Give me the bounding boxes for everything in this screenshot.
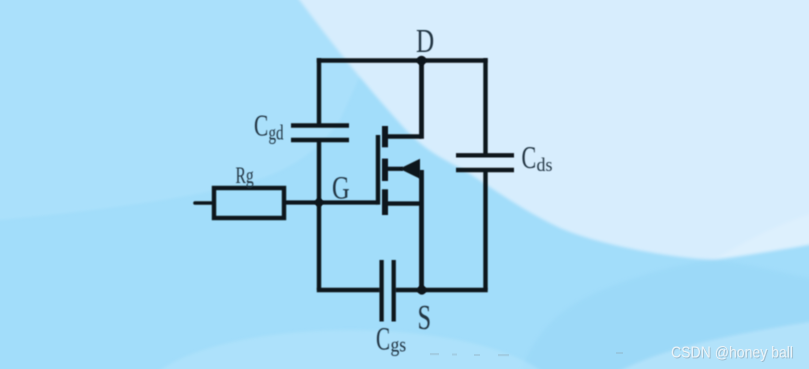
MOSFET body arrow head: [400, 159, 421, 179]
MOSFET channel bar bottom: [382, 189, 388, 215]
capacitor Cgd bottom plate: [291, 138, 349, 142]
faint smudge dashes: [430, 352, 623, 356]
wire bottom rail right segment: [396, 288, 488, 292]
svg-text:gd: gd: [269, 121, 285, 145]
MOSFET gate bar: [376, 135, 380, 205]
MOSFET channel bar middle: [382, 159, 388, 181]
svg-text:G: G: [332, 170, 350, 206]
wire top rail D: [317, 58, 488, 63]
node G junction dot: [315, 198, 323, 206]
wire gate (Rg to MOSFET gate): [284, 200, 378, 204]
bottom-left subtle dome: [140, 330, 560, 369]
svg-text:S: S: [418, 298, 432, 337]
svg-text:C: C: [376, 320, 390, 357]
wire right branch lower (Cds to bottom rail): [483, 170, 487, 290]
wire body arrow line: [387, 167, 403, 171]
wire drain vertical: [419, 59, 424, 139]
resistor Rg body: [214, 188, 284, 218]
wire body/source vertical: [419, 170, 424, 290]
svg-text:C: C: [522, 140, 537, 175]
bottom-right corner light wave: [600, 320, 809, 369]
svg-text:C: C: [254, 109, 268, 143]
capacitor Cds bottom plate: [456, 168, 514, 172]
svg-text:ds: ds: [537, 154, 553, 176]
wire right branch upper (rail to Cds): [483, 58, 487, 155]
wire left branch lower (Cgd to bottom rail): [317, 140, 321, 290]
wire left branch upper (rail to Cgd): [317, 58, 321, 125]
svg-text:Rg: Rg: [236, 163, 254, 189]
wire drain stub: [387, 134, 422, 138]
MOSFET channel bar top: [382, 126, 388, 147]
light sweeping band top-right: [291, 0, 809, 260]
svg-text:CSDN @honey ball: CSDN @honey ball: [671, 345, 793, 362]
capacitor Cgs right plate: [392, 260, 396, 322]
wire input stub left of Rg: [195, 201, 214, 205]
subtle lighter upper-left layer: [0, 0, 400, 221]
svg-text:gs: gs: [391, 334, 407, 357]
circuit wires: [195, 58, 514, 322]
node D junction dot: [417, 56, 427, 66]
capacitor Cds top plate: [456, 153, 514, 157]
capacitor Cgd top plate: [291, 123, 349, 127]
capacitor Cgs left plate: [379, 260, 383, 322]
lighter wedge top-right of pinch: [714, 210, 809, 260]
wire source stub: [387, 201, 422, 205]
node S junction dot: [417, 285, 426, 294]
bottom-right hump wave: [516, 260, 809, 369]
svg-text:D: D: [416, 22, 434, 60]
wire bottom rail left segment: [317, 288, 380, 292]
